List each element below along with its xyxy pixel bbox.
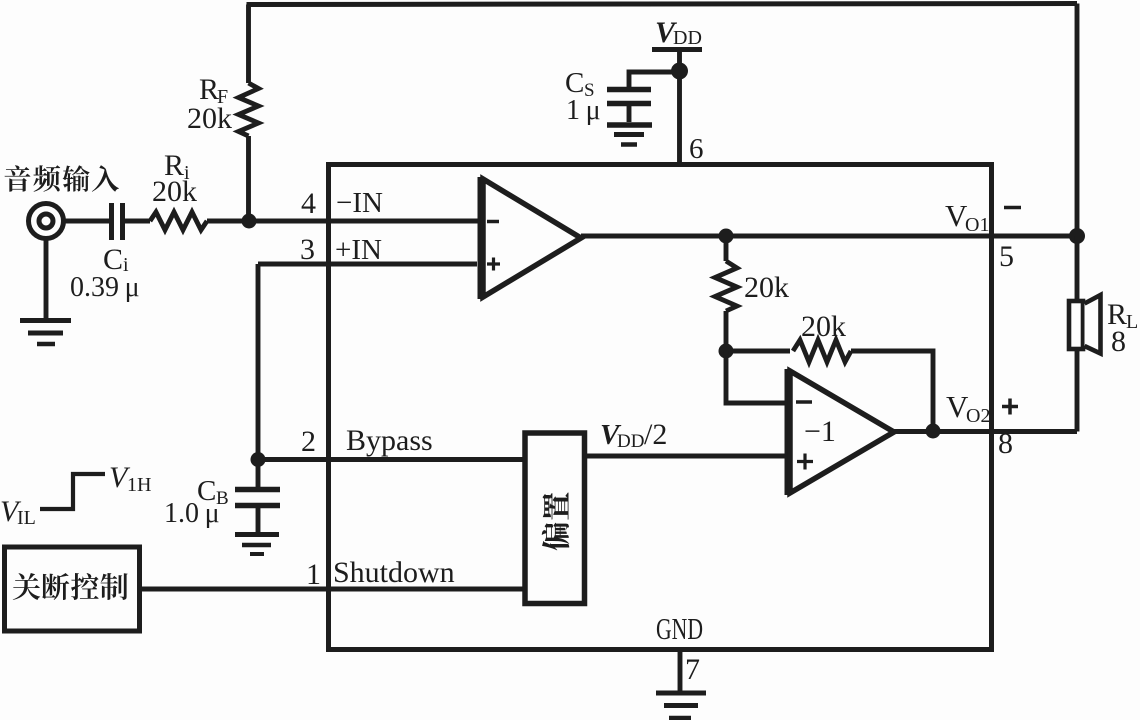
input connector (RCA jack) <box>29 204 64 239</box>
bias block 偏置 outline <box>525 433 585 604</box>
svg-text:5: 5 <box>999 240 1014 273</box>
op-amp A1 <box>478 177 484 299</box>
shutdown control box 关断控制 <box>5 547 140 631</box>
svg-text:7: 7 <box>685 653 700 686</box>
wire: Ri to op-amp inverting input (pin 4 -IN) <box>207 219 480 224</box>
svg-text:Bypass: Bypass <box>346 424 433 457</box>
op-amp A2 plus input sign <box>797 454 813 470</box>
ground (CB) <box>235 532 279 537</box>
resistor 20k (feedback) <box>793 340 851 362</box>
svg-text:Shutdown: Shutdown <box>333 556 455 589</box>
VDD supply bar <box>652 47 702 52</box>
node: junction RF/Ri <box>242 214 257 229</box>
node: VO1 / 20k divider junction <box>719 229 734 244</box>
svg-text:DD: DD <box>617 431 644 452</box>
svg-text:/2: /2 <box>644 418 667 451</box>
op-amp A2 minus input sign <box>796 400 812 404</box>
logic step waveform VIL/VIH <box>40 474 105 509</box>
svg-text:0.39 μ: 0.39 μ <box>70 272 140 303</box>
svg-text:20k: 20k <box>744 271 789 304</box>
wire: bias block VDD/2 output to A2 non-inverting input <box>585 454 787 459</box>
svg-text:2: 2 <box>301 425 316 458</box>
wire: GND pin 7 stem <box>678 650 683 691</box>
op-amp A2 <box>785 369 791 495</box>
capacitor Ci <box>112 203 123 240</box>
wire: Ci to Ri <box>125 219 150 224</box>
svg-text:O1: O1 <box>965 214 989 236</box>
wire: +IN (pin 3) <box>258 262 477 267</box>
wire: VDD stem pin 6 <box>677 50 682 165</box>
wire: Shutdown (pin 1) <box>140 587 524 592</box>
wire: feedback node to 20k feedback resistor <box>726 349 790 354</box>
svg-text:1: 1 <box>306 558 321 591</box>
wire: RF top segment <box>246 5 251 84</box>
capacitor CS <box>607 90 651 104</box>
ground (input) <box>20 318 71 323</box>
label 音频输入 (audio input) <box>5 165 119 192</box>
svg-text:8: 8 <box>1111 325 1126 358</box>
node: VDD/CS junction <box>671 63 688 80</box>
node: feedback junction <box>719 344 734 359</box>
wire: input ground stem <box>44 239 49 321</box>
wire: feedback resistor to VO2 <box>851 351 933 431</box>
svg-text:8: 8 <box>998 427 1013 460</box>
svg-text:20k: 20k <box>801 310 846 343</box>
ground (CS) <box>607 122 652 128</box>
svg-text:1H: 1H <box>127 474 151 496</box>
svg-text:20k: 20k <box>187 102 232 135</box>
resistor Ri <box>150 212 207 230</box>
node: feedback/VO2 junction <box>926 424 941 439</box>
capacitor CB <box>235 490 280 506</box>
svg-text:1 μ: 1 μ <box>566 95 601 126</box>
svg-text:O2: O2 <box>966 405 990 427</box>
VO1 polarity minus <box>1004 206 1021 210</box>
wire: speaker top lead <box>1075 236 1080 301</box>
wire: CB to ground <box>256 508 261 532</box>
wire: RF bottom segment to input node <box>246 136 251 221</box>
resistor RF <box>239 83 259 136</box>
wire: connector to Ci <box>64 219 110 224</box>
ground (pin 7) <box>656 691 706 696</box>
wire: CS branch <box>629 72 680 87</box>
svg-text:6: 6 <box>689 133 704 165</box>
svg-text:L: L <box>1126 311 1138 333</box>
svg-text:GND: GND <box>656 611 703 646</box>
wire: CS to ground <box>627 106 632 122</box>
wire: +IN vertical drop to bypass node <box>256 264 261 460</box>
op-amp A1 minus input sign <box>487 220 499 224</box>
IC U1 outline <box>329 165 992 650</box>
svg-text:1.0 μ: 1.0 μ <box>164 498 220 529</box>
wire: A2 output VO2 <box>894 429 1077 434</box>
wire: A1 output VO1 rail <box>581 234 1077 239</box>
speaker RL <box>1069 301 1083 349</box>
resistor 20k (vertical) <box>715 261 737 311</box>
wire: feedback node down to A2 inverting input <box>726 351 787 403</box>
svg-text:−IN: −IN <box>336 187 383 219</box>
wire: top feedback rail <box>247 4 1078 5</box>
svg-text:+IN: +IN <box>335 234 382 266</box>
wire: CB stem <box>256 460 261 488</box>
wire: speaker bottom lead <box>1075 349 1080 432</box>
wire: right vertical from top rail to VO1 node <box>1075 4 1080 237</box>
op-amp A1 plus input sign <box>487 258 500 271</box>
svg-text:3: 3 <box>300 233 315 266</box>
node: bypass/CB junction <box>251 452 266 467</box>
svg-text:DD: DD <box>673 27 702 49</box>
wire: Bypass (pin 2) to bias block <box>258 457 524 462</box>
svg-text:−1: −1 <box>804 415 836 448</box>
svg-text:IL: IL <box>17 507 36 529</box>
node: VO1 / speaker junction <box>1069 228 1085 244</box>
wire: VO1 to 20k resistor <box>724 236 729 261</box>
svg-text:4: 4 <box>301 187 316 220</box>
wire: 20k to feedback node <box>724 311 729 351</box>
bias block label 偏置 (rotated) <box>542 492 569 550</box>
VO2 polarity plus <box>1002 399 1018 415</box>
svg-text:20k: 20k <box>152 175 197 208</box>
